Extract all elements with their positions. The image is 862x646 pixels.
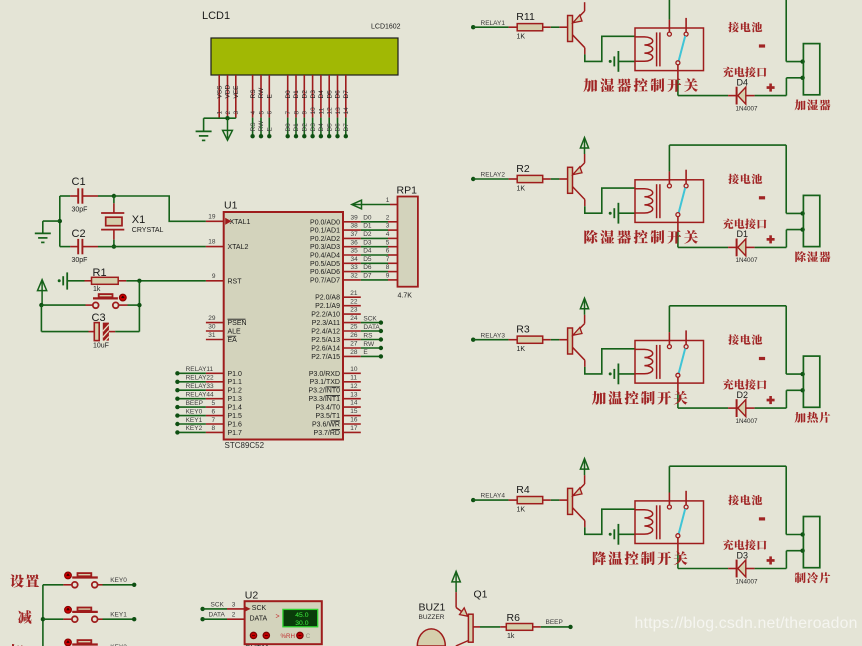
svg-text:7: 7: [386, 256, 390, 263]
svg-text:RS: RS: [363, 332, 373, 339]
node load pin 2: [800, 549, 804, 553]
svg-text:38: 38: [351, 223, 359, 230]
crystal X1: [113, 196, 115, 203]
U1 pins P2.0-P2.7: [343, 296, 361, 298]
svg-text:35: 35: [351, 248, 359, 255]
svg-text:1k: 1k: [93, 286, 101, 293]
svg-text:1K: 1K: [517, 507, 526, 514]
wire Q3 collector to relay coil: [585, 349, 635, 374]
svg-text:RP1: RP1: [397, 185, 418, 197]
node load pin 1: [800, 372, 804, 376]
wire LCD D3 net stub: [312, 118, 314, 136]
wire relay contact to diode D1: [677, 232, 679, 248]
svg-text:14: 14: [343, 107, 350, 115]
svg-text:4: 4: [250, 111, 257, 115]
U1 pin 19 XTAL1: [206, 220, 224, 222]
svg-text:LCD1: LCD1: [202, 10, 230, 22]
svg-text:P1.0: P1.0: [228, 371, 243, 378]
svg-text:RW: RW: [258, 87, 265, 99]
svg-text:RELAY3: RELAY3: [481, 332, 506, 339]
svg-text:D5: D5: [363, 256, 372, 263]
svg-text:10uF: 10uF: [93, 342, 109, 349]
svg-text:E: E: [363, 349, 368, 356]
svg-text:6: 6: [267, 111, 274, 115]
svg-text:16: 16: [350, 417, 358, 424]
load box 除湿器: [803, 195, 819, 246]
node R1-RST junction: [137, 279, 141, 283]
svg-text:RW: RW: [363, 341, 375, 348]
relay RL2 coil: [635, 189, 653, 213]
svg-text:D2: D2: [363, 231, 372, 238]
svg-text:11: 11: [318, 107, 325, 114]
transistor Q2 PNP: [568, 167, 573, 193]
LCD1 display body: [211, 38, 398, 75]
transistor Q1 PNP: [568, 16, 573, 42]
wire C1 to XTAL1 node: [98, 195, 114, 197]
LCD1 pin 6 (E): [268, 75, 270, 118]
label battery terminal text: [728, 495, 739, 505]
node load pin 1: [800, 532, 804, 536]
wire LCD D6 net stub: [337, 118, 339, 136]
ground symbol left of crystal: [43, 220, 60, 222]
svg-text:8: 8: [212, 425, 216, 432]
svg-text:P2.3/A11: P2.3/A11: [312, 320, 340, 327]
svg-text:D2: D2: [302, 90, 309, 99]
node load pin 1: [800, 59, 804, 63]
label minus sign: [759, 517, 765, 520]
relay RL3 moving contact: [676, 373, 680, 377]
wire LCD D7 net stub: [345, 118, 347, 136]
svg-text:RELAY44: RELAY44: [186, 392, 214, 399]
svg-text:VSS: VSS: [216, 85, 223, 99]
relay RL1 box: [635, 28, 704, 71]
svg-text:P3.7/RD: P3.7/RD: [314, 430, 340, 437]
wire R3 to transistor base: [551, 339, 560, 341]
svg-text:KEY2: KEY2: [186, 425, 203, 432]
LCD1 pin 7 (D0): [287, 75, 289, 118]
relay RL2 NC contact: [684, 184, 688, 188]
svg-text:P3.5/T1: P3.5/T1: [315, 413, 340, 420]
wire C2 left: [60, 246, 70, 248]
load box 制冷片: [803, 517, 819, 568]
node reset power junction: [39, 303, 43, 307]
LCD1 pin 2 (VDD): [227, 75, 229, 118]
svg-text:3: 3: [386, 223, 390, 230]
label minus sign: [759, 44, 765, 47]
svg-text:>: >: [276, 613, 280, 620]
node key1 junction: [41, 617, 45, 621]
svg-text:D6: D6: [335, 90, 342, 99]
svg-text:D3: D3: [363, 239, 372, 246]
label control switch name: [592, 391, 606, 405]
svg-text:D7: D7: [363, 273, 372, 280]
LCD1 pin 13 (D6): [337, 75, 339, 118]
svg-text:D5: D5: [326, 123, 333, 132]
svg-text:1N4007: 1N4007: [736, 578, 759, 585]
wire R1 to RST: [126, 280, 206, 282]
node load pin 2: [800, 227, 804, 231]
svg-text:1K: 1K: [517, 34, 526, 41]
wire LCD E net stub: [268, 118, 270, 136]
svg-text:8: 8: [293, 111, 300, 115]
node button right junction: [137, 303, 141, 307]
node XTAL1 junction: [112, 194, 116, 198]
label load name 除湿器: [795, 251, 806, 262]
transistor Q4 PNP: [568, 488, 573, 514]
relay RL1 moving contact: [676, 61, 680, 65]
svg-text:1K: 1K: [517, 185, 526, 192]
svg-text:5: 5: [212, 400, 216, 407]
wire diode D2 to load: [755, 407, 787, 409]
svg-text:13: 13: [335, 107, 342, 115]
label load name 制冷片: [795, 572, 806, 583]
svg-text:RELAY33: RELAY33: [186, 383, 214, 390]
wire diode D1 to load: [755, 246, 787, 248]
svg-text:P2.4/A12: P2.4/A12: [311, 329, 340, 336]
svg-text:P1.3: P1.3: [228, 396, 243, 403]
label battery terminal text: [728, 174, 739, 184]
svg-text:P0.5/AD5: P0.5/AD5: [310, 261, 340, 268]
svg-text:BEEP: BEEP: [186, 400, 203, 407]
label load name 加湿器: [795, 99, 806, 110]
U2 buttons and legends: [250, 632, 256, 638]
svg-text:https://blog.csdn.net/theroado: https://blog.csdn.net/theroadon: [635, 615, 858, 632]
relay RL1 coil: [635, 37, 653, 61]
relay RL2 switch blade: [679, 188, 686, 213]
svg-text:RELAY1: RELAY1: [481, 20, 506, 27]
svg-text:9: 9: [302, 111, 309, 115]
label control switch name: [593, 551, 606, 565]
wire power to button: [41, 304, 85, 306]
wire diode D4 to load: [755, 95, 787, 97]
label control switch name: [583, 78, 597, 92]
svg-text:R2: R2: [516, 163, 530, 175]
svg-text:10: 10: [350, 366, 358, 373]
LCD1 pin 11 (D4): [320, 75, 322, 118]
svg-text:5: 5: [258, 111, 265, 115]
svg-text:P3.6/WR: P3.6/WR: [312, 422, 340, 429]
wire Q1 base to R6: [473, 626, 480, 628]
svg-text:26: 26: [350, 332, 358, 339]
svg-text:39: 39: [351, 214, 359, 221]
svg-text:DATA: DATA: [209, 612, 226, 619]
svg-text:KEY0: KEY0: [110, 577, 127, 584]
power-down terminal under VDD: [223, 130, 233, 140]
svg-text:P0.1/AD1: P0.1/AD1: [310, 228, 340, 235]
wire LCD D5 net stub: [328, 118, 330, 136]
svg-text:29: 29: [208, 315, 216, 322]
relay RL4 coil: [635, 510, 653, 534]
svg-text:12: 12: [350, 383, 358, 390]
svg-text:X1: X1: [132, 214, 145, 226]
U1 pins P0.0-P0.7 AD bus: [343, 221, 361, 223]
label minus key text: [18, 610, 32, 624]
power terminal arrow above Q3: [580, 298, 588, 309]
svg-text:P1.2: P1.2: [228, 388, 243, 395]
wire relay common to supply rail: [668, 0, 670, 20]
svg-text:C: C: [306, 633, 311, 640]
ground terminal left of relay coil: [609, 212, 612, 215]
svg-text:13: 13: [350, 391, 358, 398]
svg-text:%RH: %RH: [281, 633, 295, 640]
svg-text:30.0: 30.0: [295, 620, 308, 627]
LCD1 pin 8 (D1): [295, 75, 297, 118]
wire LCD D2 net stub: [303, 118, 305, 136]
svg-text:4: 4: [386, 231, 390, 238]
svg-text:31: 31: [208, 332, 216, 339]
svg-text:RS: RS: [250, 122, 257, 132]
wire LCD D4 net stub: [320, 118, 322, 136]
svg-text:R11: R11: [516, 11, 535, 23]
LCD1 pin 9 (D2): [303, 75, 305, 118]
relay RL4 switch blade: [679, 509, 686, 534]
svg-text:D3: D3: [310, 90, 317, 99]
svg-text:SCK: SCK: [252, 605, 267, 612]
wire relay contact to diode D2: [677, 393, 679, 409]
wire diode D3 to load: [755, 568, 787, 570]
svg-text:VEE: VEE: [233, 85, 240, 99]
relay RL4 moving contact: [676, 534, 680, 538]
push button KEY0: [43, 584, 64, 586]
wire C3 right: [115, 331, 139, 333]
U1 pins P1.0-P1.7 with net labels: [177, 372, 206, 374]
svg-text:VDD: VDD: [225, 84, 232, 98]
svg-text:XTAL1: XTAL1: [230, 219, 251, 226]
label battery terminal text: [728, 334, 739, 344]
node load pin 2: [800, 388, 804, 392]
load box 加湿器: [803, 44, 819, 95]
svg-text:CRYSTAL: CRYSTAL: [132, 227, 164, 234]
wire reset left column: [40, 305, 42, 332]
svg-text:D2: D2: [302, 123, 309, 132]
svg-text:9: 9: [386, 273, 390, 280]
svg-text:14: 14: [350, 400, 358, 407]
wire RELAY4 to R4: [473, 499, 508, 501]
wire LCD D1 net stub: [295, 118, 297, 136]
wire C2 to XTAL2: [98, 246, 114, 248]
svg-text:SCK: SCK: [211, 601, 225, 608]
diode D1 1N4007: [728, 246, 737, 248]
svg-text:D7: D7: [343, 90, 350, 99]
power terminal arrow above Q1: [452, 571, 460, 582]
svg-text:3: 3: [233, 111, 240, 115]
svg-text:1N4007: 1N4007: [736, 418, 759, 425]
label plus sign: [767, 238, 775, 241]
U1 pins 29 30 31 PSEN ALE EA: [206, 322, 224, 324]
svg-text:D4: D4: [318, 123, 325, 132]
svg-text:45.0: 45.0: [295, 612, 308, 619]
relay RL2 common contact: [667, 184, 671, 188]
wire relay common to supply rail: [668, 466, 670, 492]
U2 pin SCK: [200, 607, 204, 611]
svg-text:RELAY22: RELAY22: [186, 375, 214, 382]
ground terminal left of relay coil: [609, 533, 612, 536]
wire relay common to supply rail: [668, 306, 670, 332]
wire Q4 collector to relay coil: [585, 509, 635, 534]
label minus sign: [759, 196, 765, 199]
svg-text:1K: 1K: [517, 346, 526, 353]
node XTAL2 junction: [112, 244, 116, 248]
svg-text:D4: D4: [363, 248, 372, 255]
svg-text:D4: D4: [737, 77, 749, 87]
load box 加热片: [803, 356, 819, 407]
svg-text:RW: RW: [258, 120, 265, 132]
svg-text:P2.5/A13: P2.5/A13: [311, 337, 340, 344]
svg-text:4.7K: 4.7K: [398, 293, 413, 300]
svg-text:1N4007: 1N4007: [736, 105, 759, 112]
svg-text:1: 1: [386, 197, 390, 204]
diode D4 1N4007: [728, 95, 737, 97]
relay RL4 box: [635, 501, 704, 544]
wire Q2 collector to relay coil: [585, 188, 635, 213]
svg-text:30pF: 30pF: [72, 257, 88, 264]
svg-text:E: E: [267, 127, 274, 132]
svg-text:U2: U2: [245, 590, 259, 602]
svg-text:P0.2/AD2: P0.2/AD2: [310, 236, 340, 243]
svg-text:ALE: ALE: [228, 329, 242, 336]
svg-text:P3.1/TXD: P3.1/TXD: [310, 379, 340, 386]
svg-text:D1: D1: [293, 123, 300, 132]
relay RL2 moving contact: [676, 213, 680, 217]
svg-text:EA: EA: [228, 337, 238, 344]
svg-text:P3.3/INT1: P3.3/INT1: [308, 396, 340, 403]
push button KEY1: [43, 618, 64, 620]
LCD1 pin 1 (VSS): [218, 75, 220, 118]
node net label RELAY4: [471, 498, 475, 502]
wire LCD D0 net stub: [287, 118, 289, 136]
svg-text:D1: D1: [293, 90, 300, 99]
svg-text:KEY1: KEY1: [186, 417, 203, 424]
LCD1 pin 12 (D5): [328, 75, 330, 118]
svg-text:15: 15: [350, 408, 358, 415]
relay RL1 common contact: [667, 32, 671, 36]
node net label RELAY1: [471, 25, 475, 29]
label control switch name: [584, 230, 597, 244]
svg-text:3: 3: [232, 601, 236, 608]
label minus sign: [759, 357, 765, 360]
junction node at VDD: [225, 116, 229, 120]
svg-text:33: 33: [351, 264, 359, 271]
relay RL3 switch blade: [679, 349, 686, 374]
wire RELAY1 to R11: [473, 26, 508, 28]
svg-text:P1.1: P1.1: [228, 379, 243, 386]
svg-text:23: 23: [350, 307, 358, 314]
svg-text:30: 30: [208, 323, 216, 330]
svg-text:2: 2: [225, 111, 232, 115]
svg-text:P2.1/A9: P2.1/A9: [315, 303, 340, 310]
svg-text:P1.4: P1.4: [228, 405, 243, 412]
svg-text:C2: C2: [72, 228, 86, 240]
relay RL1 NC contact: [684, 32, 688, 36]
svg-text:6: 6: [212, 408, 216, 415]
push button RESET: [86, 304, 93, 306]
ground symbol under LCD: [203, 118, 205, 131]
power terminal arrow (VCC) reset: [38, 280, 47, 291]
relay RL2 core: [656, 184, 658, 218]
svg-text:6: 6: [386, 248, 390, 255]
svg-text:10: 10: [310, 107, 317, 115]
wire LCD RW net stub: [260, 118, 262, 136]
svg-text:SCK: SCK: [363, 315, 377, 322]
label third key text clipped: [10, 644, 24, 646]
LCD1 pin 3 (VEE): [235, 75, 237, 118]
wire R4 to transistor base: [551, 499, 560, 501]
diode D2 1N4007: [728, 407, 737, 409]
svg-text:1: 1: [217, 111, 224, 115]
op-amp U1 microcontroller STC89C52 body: [224, 212, 343, 440]
svg-text:P0.7/AD7: P0.7/AD7: [310, 277, 340, 284]
label charging port text: [723, 379, 734, 389]
wire R11 to transistor base: [551, 26, 560, 28]
svg-text:25: 25: [350, 324, 358, 331]
svg-text:1k: 1k: [507, 633, 515, 640]
label plus sign: [767, 86, 775, 89]
svg-text:D1: D1: [363, 223, 372, 230]
LCD1 pin 4 (RS): [252, 75, 254, 118]
svg-text:P2.6/A14: P2.6/A14: [311, 346, 340, 353]
svg-text:PSEN: PSEN: [228, 320, 247, 327]
relay RL3 box: [635, 341, 704, 384]
svg-text:11: 11: [350, 374, 357, 381]
svg-text:RELAY4: RELAY4: [481, 493, 506, 500]
svg-text:R6: R6: [507, 612, 521, 624]
svg-text:P3.2/INT0: P3.2/INT0: [308, 388, 340, 395]
svg-text:D6: D6: [363, 264, 372, 271]
resistor R11: [509, 26, 518, 28]
svg-text:27: 27: [350, 341, 358, 348]
svg-text:D0: D0: [285, 90, 292, 99]
label charging port text: [723, 540, 734, 550]
svg-text:D2: D2: [737, 390, 749, 400]
node ground tap: [58, 219, 62, 223]
LCD1 pin 10 (D3): [312, 75, 314, 118]
svg-text:P0.6/AD6: P0.6/AD6: [310, 269, 340, 276]
wire RELAY2 to R2: [473, 178, 508, 180]
wire LCD RS net stub: [252, 118, 254, 136]
svg-text:RS: RS: [250, 89, 257, 99]
wire LCD power pins to ground: [204, 117, 236, 119]
ground terminal left of relay coil: [609, 60, 612, 63]
svg-text:P3.0/RXD: P3.0/RXD: [309, 371, 340, 378]
relay RL3 NC contact: [684, 345, 688, 349]
svg-text:D0: D0: [285, 123, 292, 132]
wire R2 to transistor base: [551, 178, 560, 180]
relay RL3 core: [656, 345, 658, 379]
svg-text:LCD1602: LCD1602: [371, 24, 401, 31]
U1 pin 18 XTAL2: [206, 246, 224, 248]
svg-text:37: 37: [351, 231, 359, 238]
svg-text:P1.6: P1.6: [228, 422, 243, 429]
svg-text:D1: D1: [737, 229, 749, 239]
wire R6 to BEEP net: [541, 626, 571, 628]
relay RL3 coil: [635, 349, 653, 373]
svg-text:1N4007: 1N4007: [736, 257, 759, 264]
wire junction column right: [138, 281, 140, 332]
LCD1 pin 5 (RW): [260, 75, 262, 118]
wire relay contact to diode D4: [677, 80, 679, 96]
relay RL2 box: [635, 180, 704, 223]
svg-text:34: 34: [351, 256, 359, 263]
resistor R4: [509, 499, 518, 501]
svg-text:C1: C1: [72, 176, 86, 188]
svg-text:D4: D4: [318, 90, 325, 99]
svg-text:36: 36: [351, 239, 359, 246]
label load name 加热片: [795, 412, 806, 423]
node net label RELAY2: [471, 177, 475, 181]
svg-text:D0: D0: [363, 214, 372, 221]
svg-text:32: 32: [351, 273, 359, 280]
svg-text:P2.7/A15: P2.7/A15: [311, 354, 340, 361]
